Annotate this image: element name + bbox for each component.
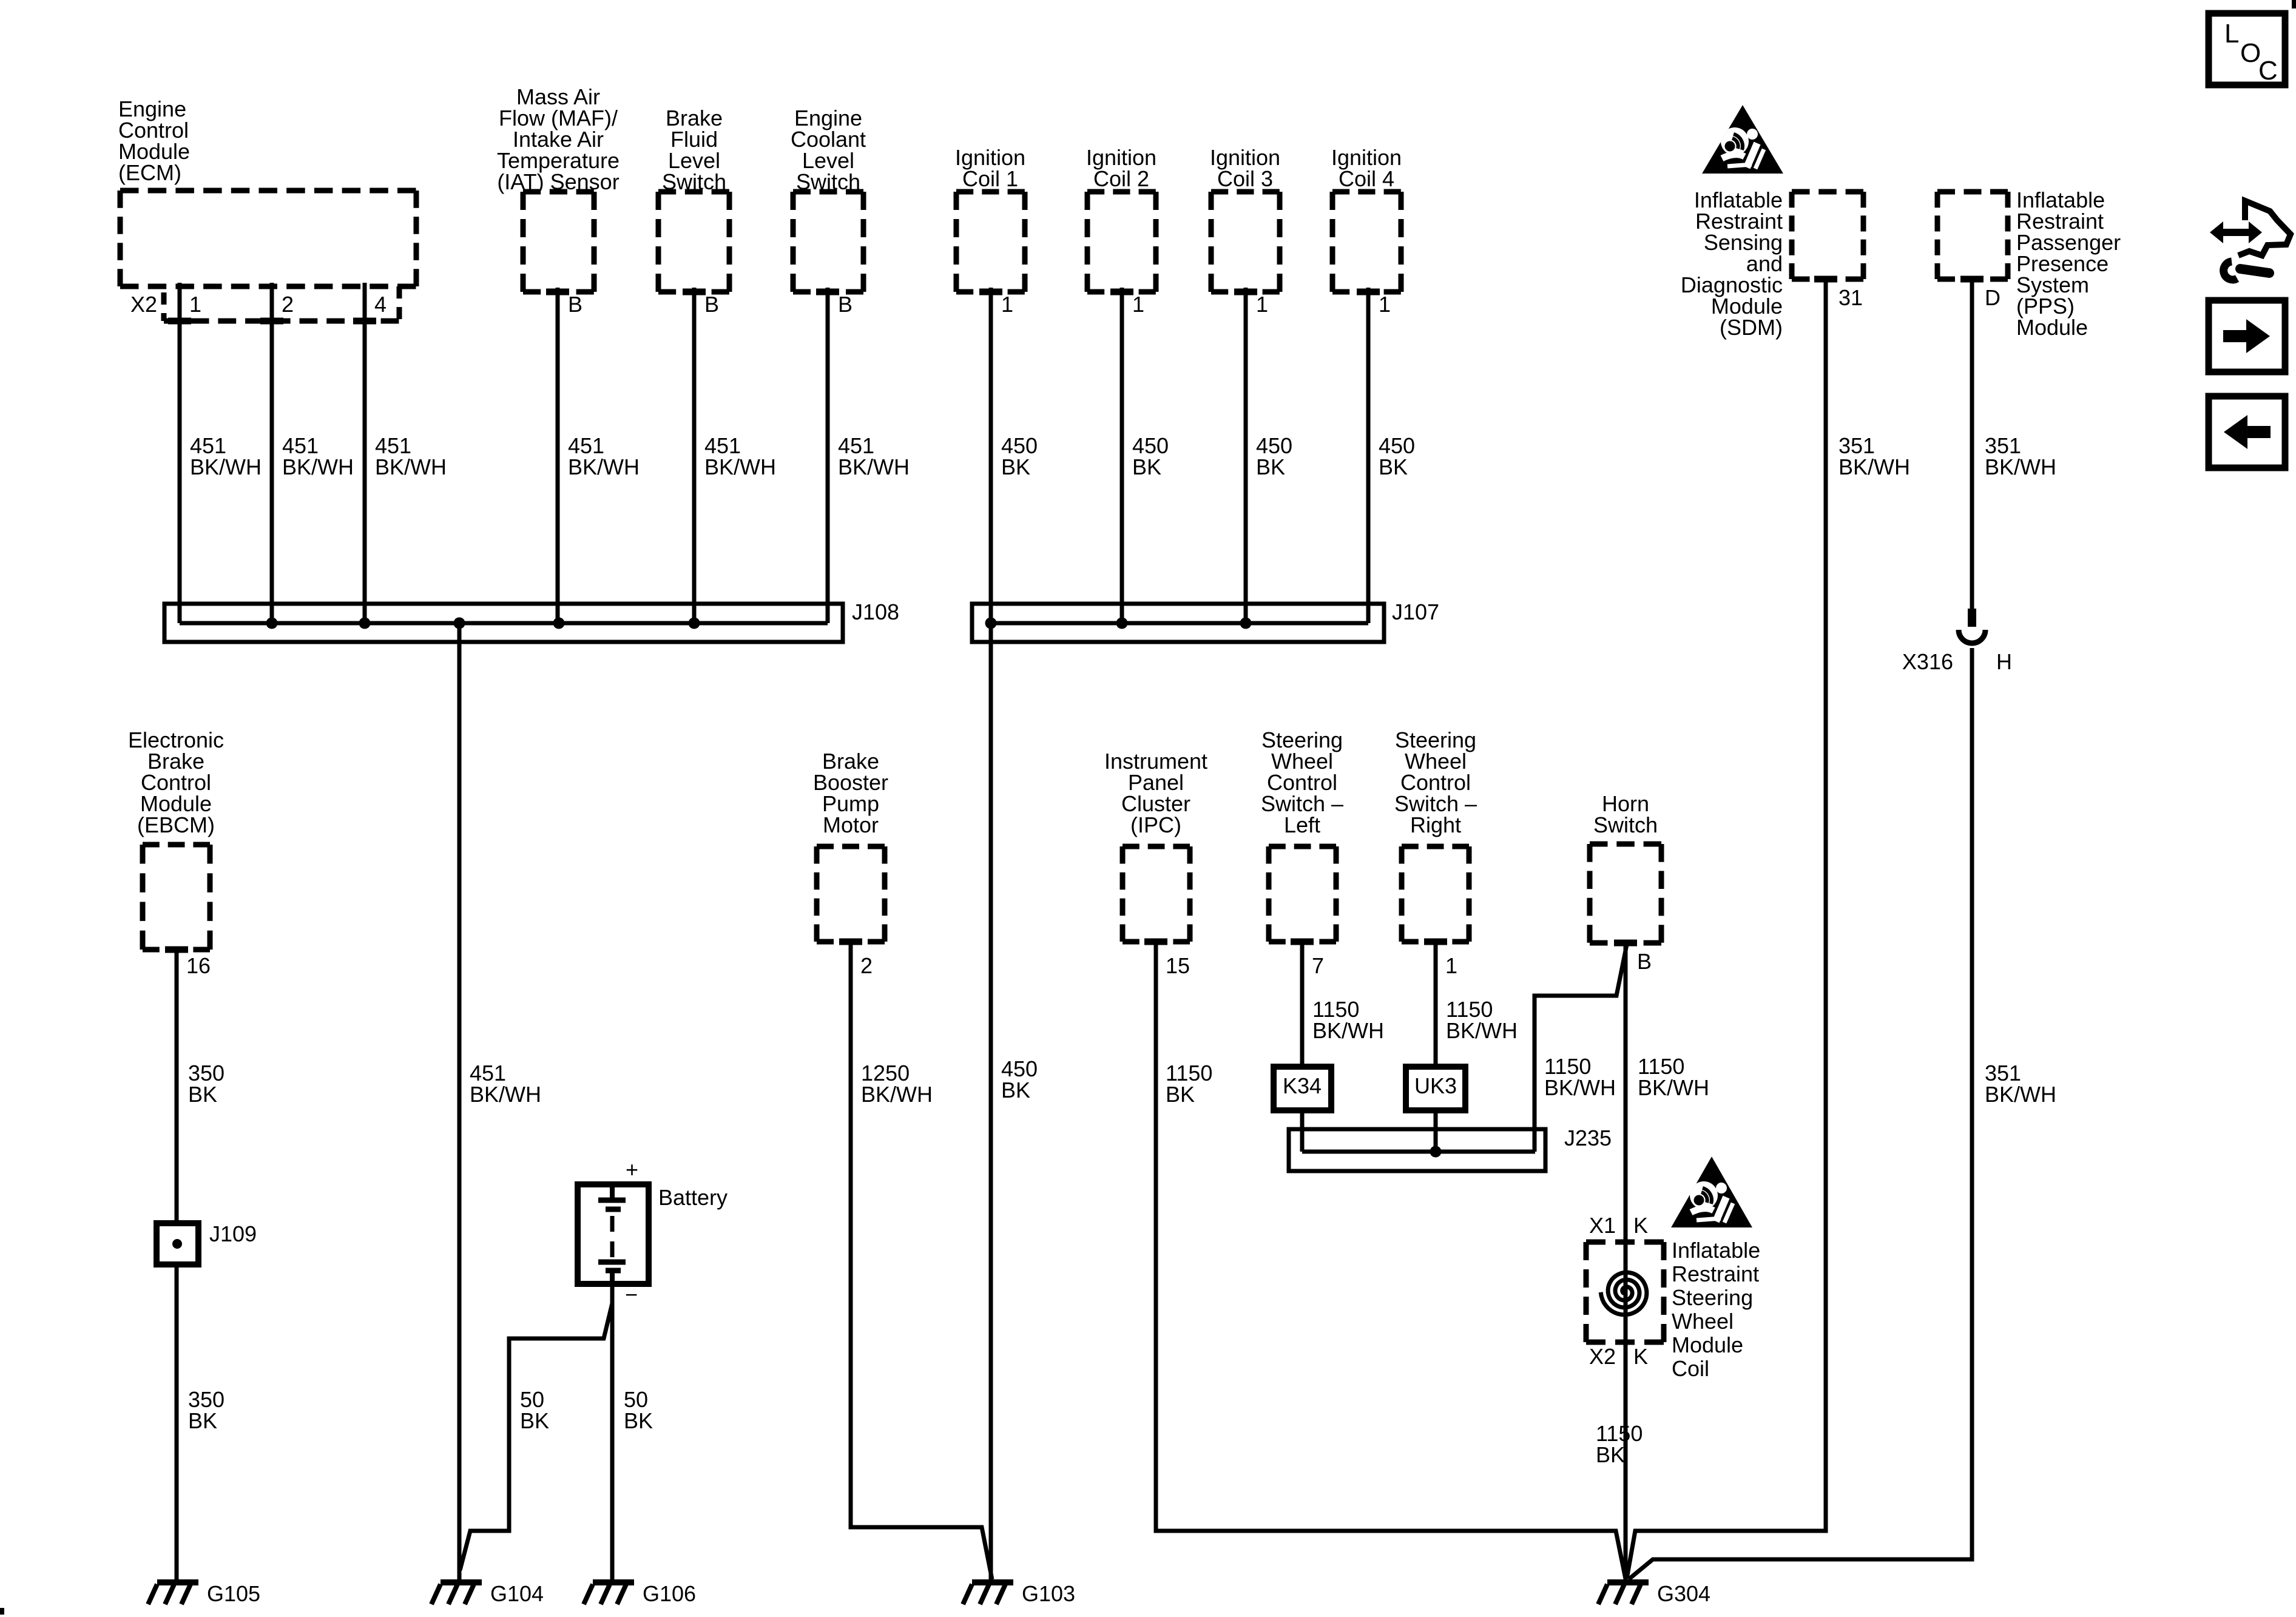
wire 351 BK/WH SDM to G304 [1627, 279, 1826, 1579]
page-edge speck top-right [2292, 0, 2296, 8]
battery [578, 1184, 649, 1284]
splice pack J107 [972, 604, 1384, 642]
svg-text:J109: J109 [209, 1221, 257, 1246]
svg-text:BK: BK [1132, 454, 1161, 479]
wire 1150 BK/WH K34 to J235 [1300, 1110, 1305, 1152]
service/adjust icon (double arrow, wrench, panel outline) [2238, 201, 2291, 255]
ground G103 [963, 1582, 1013, 1604]
wire 450 BK coil2 pin1 [1120, 288, 1124, 623]
wire 451 BK/WH trunk to G104 [458, 623, 462, 1585]
module Ignition Coil 1 [956, 192, 1025, 292]
svg-text:1: 1 [189, 292, 201, 317]
svg-text:Switch: Switch [1593, 812, 1658, 837]
LOC legend box [2209, 13, 2285, 85]
svg-text:BK/WH: BK/WH [1985, 454, 2056, 479]
splice pack J235 [1289, 1129, 1545, 1171]
module MAF/IAT sensor [523, 192, 594, 292]
svg-text:BK: BK [624, 1408, 653, 1433]
svg-text:(EBCM): (EBCM) [137, 812, 215, 837]
svg-text:Coil 1: Coil 1 [962, 166, 1018, 191]
wire 450 BK trunk to G103 [989, 623, 993, 1585]
svg-text:BK: BK [1001, 454, 1030, 479]
svg-text:Steering: Steering [1672, 1285, 1753, 1310]
module Brake Booster Pump Motor [817, 846, 885, 942]
svg-text:BK: BK [1001, 1078, 1030, 1102]
svg-text:BK: BK [1379, 454, 1408, 479]
clockspring coil symbol [1601, 1272, 1647, 1315]
svg-text:D: D [1985, 285, 2001, 310]
svg-text:X1: X1 [1589, 1213, 1616, 1238]
svg-text:Coil: Coil [1672, 1356, 1709, 1381]
svg-text:UK3: UK3 [1414, 1073, 1457, 1098]
wire 350 BK J109 to G105 [175, 1262, 179, 1585]
wire 1150 BK/WH UK3 to J235 [1434, 1110, 1438, 1152]
svg-text:C: C [2258, 56, 2278, 86]
svg-text:Motor: Motor [823, 812, 879, 837]
svg-text:G103: G103 [1022, 1581, 1075, 1606]
svg-text:BK/WH: BK/WH [1838, 454, 1910, 479]
module Horn Switch [1590, 844, 1661, 943]
svg-text:Battery: Battery [658, 1185, 728, 1210]
svg-text:BK/WH: BK/WH [1312, 1018, 1384, 1043]
svg-text:K: K [1633, 1344, 1648, 1369]
module Steering Wheel Control Switch Left [1269, 846, 1336, 942]
module SDM (Inflatable Restraint Sensing and Diagnostic Module) [1792, 192, 1863, 279]
svg-text:J108: J108 [852, 599, 899, 624]
svg-text:1: 1 [1445, 953, 1457, 978]
svg-text:BK/WH: BK/WH [190, 454, 262, 479]
wire 351 BK/WH PPS upper [1970, 279, 1974, 610]
svg-text:X2: X2 [130, 292, 157, 317]
inline connector K34 [1274, 1067, 1331, 1110]
wire 451 BK/WH ECM pin1 [178, 283, 182, 623]
svg-text:1: 1 [1256, 292, 1268, 317]
svg-text:2: 2 [860, 953, 873, 978]
forward arrow legend box [2209, 300, 2285, 372]
module Ignition Coil 3 [1211, 192, 1280, 292]
svg-text:−: − [625, 1282, 638, 1307]
wire 1250 BK/WH BBPM to G103 [851, 942, 992, 1579]
inline connector UK3 [1406, 1067, 1465, 1110]
page-edge speck bottom-left [0, 1608, 4, 1615]
svg-text:BK/WH: BK/WH [861, 1082, 933, 1107]
svg-text:K34: K34 [1283, 1073, 1322, 1098]
svg-text:K: K [1633, 1213, 1648, 1238]
wire 1150 BK/WH horn to coil [1624, 943, 1628, 1580]
module IPC (Instrument Panel Cluster) [1123, 846, 1190, 942]
svg-text:BK: BK [188, 1408, 217, 1433]
wire 351 BK/WH X316 to G304 [1629, 648, 1972, 1579]
svg-text:Module: Module [2016, 315, 2088, 340]
back arrow legend box [2209, 396, 2285, 468]
module Ignition Coil 4 [1332, 192, 1401, 292]
svg-text:(ECM): (ECM) [118, 160, 181, 185]
svg-text:B: B [568, 292, 582, 317]
connector X2 strip of ECM [164, 286, 399, 321]
wire 50 BK branch to G104 [460, 1303, 612, 1570]
inline splice J109 [157, 1223, 198, 1264]
wire 450 BK coil1 pin1 [989, 288, 993, 623]
svg-text:Switch: Switch [662, 169, 726, 194]
svg-text:BK/WH: BK/WH [1638, 1075, 1709, 1100]
ground G106 [584, 1582, 634, 1604]
wire 451 BK/WH ECM pin4 [363, 283, 367, 623]
svg-text:Coil 4: Coil 4 [1339, 166, 1394, 191]
svg-text:Restraint: Restraint [1672, 1261, 1759, 1286]
svg-text:BK/WH: BK/WH [1985, 1082, 2056, 1107]
svg-text:Module: Module [1672, 1332, 1743, 1357]
svg-text:Switch: Switch [796, 169, 860, 194]
ground G105 [148, 1582, 198, 1604]
wire 1150 BK/WH SWCS-L to K34 [1300, 942, 1305, 1069]
svg-text:(IAT) Sensor: (IAT) Sensor [497, 169, 619, 194]
svg-text:J107: J107 [1392, 599, 1439, 624]
svg-text:Left: Left [1284, 812, 1320, 837]
inline connector X316 [1959, 609, 1985, 643]
svg-text:H: H [1996, 649, 2012, 674]
svg-text:BK: BK [1256, 454, 1285, 479]
svg-text:(IPC): (IPC) [1130, 812, 1181, 837]
module Engine Coolant Level Switch [793, 192, 863, 292]
svg-text:Inflatable: Inflatable [1672, 1238, 1760, 1263]
svg-text:1: 1 [1379, 292, 1391, 317]
svg-text:BK/WH: BK/WH [1446, 1018, 1518, 1043]
module Steering Wheel Control Switch Right [1402, 846, 1469, 942]
wire 450 BK coil3 pin1 [1244, 288, 1248, 623]
svg-text:4: 4 [374, 292, 387, 317]
svg-text:16: 16 [186, 953, 211, 978]
svg-text:B: B [704, 292, 719, 317]
svg-text:G106: G106 [643, 1581, 696, 1606]
svg-text:BK/WH: BK/WH [704, 454, 776, 479]
svg-text:G105: G105 [207, 1581, 260, 1606]
svg-text:Coil 3: Coil 3 [1217, 166, 1273, 191]
svg-text:15: 15 [1166, 953, 1190, 978]
wire 1150 BK/WH SWCS-R to UK3 [1434, 942, 1438, 1069]
ground G104 [431, 1582, 482, 1604]
svg-text:L: L [2224, 19, 2239, 49]
wire 350 BK EBCM to J109 [175, 950, 179, 1226]
module PPS (Passenger Presence System) [1937, 192, 2008, 279]
wire 451 BK/WH BFLS pinB [692, 288, 697, 623]
splice pack J108 [164, 604, 843, 642]
svg-text:BK: BK [1596, 1442, 1625, 1467]
wire 450 BK coil4 pin1 [1366, 288, 1371, 623]
svg-text:BK: BK [1166, 1082, 1195, 1107]
wire 451 BK/WH ECLS pinB [826, 288, 830, 623]
wire 451 BK/WH ECM pin2 [270, 283, 274, 623]
module EBCM (Electronic Brake Control Module) [143, 845, 210, 950]
svg-text:J235: J235 [1564, 1126, 1612, 1150]
svg-text:1: 1 [1001, 292, 1013, 317]
module ECM (Engine Control Module) [120, 191, 416, 286]
svg-text:BK: BK [520, 1408, 549, 1433]
svg-text:BK/WH: BK/WH [1544, 1075, 1616, 1100]
svg-text:Coil 2: Coil 2 [1093, 166, 1149, 191]
svg-text:BK/WH: BK/WH [568, 454, 640, 479]
svg-text:Right: Right [1410, 812, 1461, 837]
svg-text:2: 2 [282, 292, 294, 317]
svg-text:+: + [626, 1157, 638, 1182]
svg-text:BK/WH: BK/WH [838, 454, 910, 479]
svg-text:G104: G104 [490, 1581, 544, 1606]
svg-text:31: 31 [1838, 285, 1863, 310]
svg-text:BK/WH: BK/WH [470, 1082, 541, 1107]
svg-text:1: 1 [1132, 292, 1144, 317]
svg-text:X2: X2 [1589, 1344, 1616, 1369]
svg-text:BK/WH: BK/WH [375, 454, 447, 479]
svg-text:(SDM): (SDM) [1720, 315, 1783, 340]
ground G304 [1598, 1582, 1649, 1604]
svg-text:G304: G304 [1657, 1581, 1710, 1606]
svg-text:Wheel: Wheel [1672, 1309, 1734, 1334]
svg-text:BK: BK [188, 1082, 217, 1107]
module Brake Fluid Level Switch [658, 192, 729, 292]
wire 451 BK/WH MAF pinB [556, 288, 560, 623]
wire 50 BK battery negative to G106 [610, 1284, 615, 1585]
wire 1150 BK IPC to G304 [1156, 942, 1626, 1579]
svg-text:7: 7 [1312, 953, 1324, 978]
module Ignition Coil 2 [1087, 192, 1156, 292]
svg-text:B: B [838, 292, 853, 317]
svg-text:X316: X316 [1902, 649, 1953, 674]
module Inflatable Restraint Steering Wheel Module Coil [1586, 1242, 1664, 1342]
wire 1150 BK/WH horn branch to J235 [1535, 945, 1627, 1152]
svg-text:BK/WH: BK/WH [282, 454, 354, 479]
svg-text:B: B [1637, 949, 1652, 974]
